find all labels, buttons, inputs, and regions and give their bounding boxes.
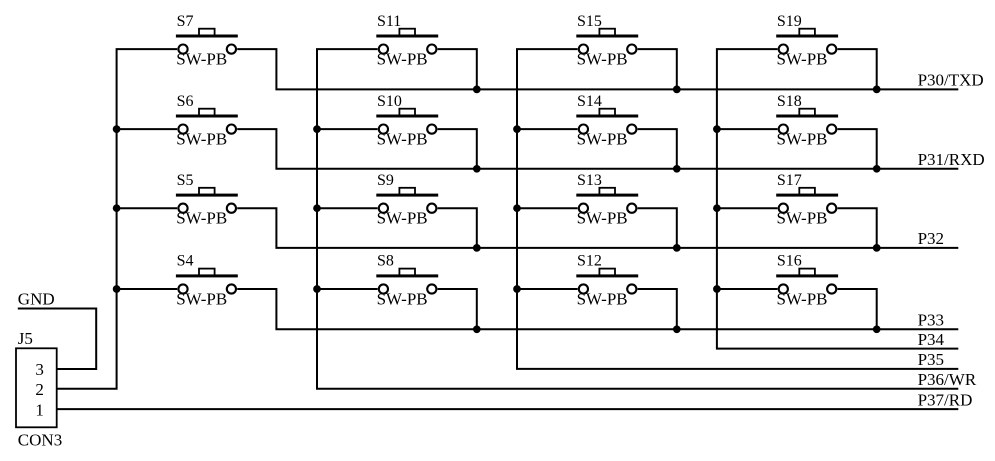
svg-text:S18: S18 <box>777 93 802 110</box>
wire: stub from column 1 bus to S6 left terminal <box>117 128 178 130</box>
svg-text:SW-PB: SW-PB <box>176 209 227 228</box>
svg-text:J5: J5 <box>18 329 33 348</box>
wire: stub from column 2 bus to S9 left terminal <box>317 207 378 209</box>
svg-text:S8: S8 <box>377 253 394 270</box>
svg-text:SW-PB: SW-PB <box>577 289 628 308</box>
svg-text:SW-PB: SW-PB <box>577 130 628 149</box>
wire: stub from column 1 bus to S4 left terminal <box>117 288 178 290</box>
svg-text:P30/TXD: P30/TXD <box>918 71 984 90</box>
svg-text:S14: S14 <box>577 93 602 110</box>
svg-text:P34: P34 <box>918 330 945 349</box>
svg-text:SW-PB: SW-PB <box>377 289 428 308</box>
svg-text:SW-PB: SW-PB <box>377 50 428 69</box>
svg-text:P31/RXD: P31/RXD <box>918 150 985 169</box>
svg-text:SW-PB: SW-PB <box>777 50 828 69</box>
junction: column 4 bus / S17 stub <box>713 204 721 212</box>
svg-text:P35: P35 <box>918 350 944 369</box>
svg-text:P33: P33 <box>918 311 944 330</box>
push-button switch S5 (SW-PB) <box>176 188 238 213</box>
junction: column 1 bus / S5 stub <box>113 204 121 212</box>
wire: stub from column 3 bus to S13 left terminal <box>517 207 578 209</box>
junction: column 1 bus / S6 stub <box>113 125 121 133</box>
wire: column 4 bus down to P34 net line <box>717 49 958 349</box>
wire: S6 right terminal drop + P31/RXD net line <box>237 129 958 169</box>
svg-text:P37/RD: P37/RD <box>918 390 973 409</box>
junction: P32 net line / S13 drop <box>673 244 681 252</box>
svg-text:P32: P32 <box>918 229 944 248</box>
junction: column 3 bus / S14 stub <box>513 125 521 133</box>
svg-text:S13: S13 <box>577 172 602 189</box>
wire: S13 right terminal drop to P32 net line <box>638 208 677 248</box>
wire: J5 pin 3 to GND net stub <box>18 309 96 370</box>
push-button switch S4 (SW-PB) <box>176 269 238 294</box>
svg-text:S5: S5 <box>177 172 194 189</box>
push-button switch S19 (SW-PB) <box>776 29 838 54</box>
svg-text:S4: S4 <box>177 253 194 270</box>
wire: S4 right terminal drop + P33 net line <box>237 289 958 329</box>
push-button switch S13 (SW-PB) <box>576 188 638 213</box>
svg-text:SW-PB: SW-PB <box>777 130 828 149</box>
svg-text:S12: S12 <box>577 253 602 270</box>
svg-text:S19: S19 <box>777 13 802 30</box>
junction: P32 net line / S9 drop <box>473 244 481 252</box>
svg-text:2: 2 <box>35 380 44 399</box>
push-button switch S10 (SW-PB) <box>376 109 438 134</box>
svg-text:1: 1 <box>35 400 44 419</box>
svg-text:S15: S15 <box>577 13 602 30</box>
svg-text:SW-PB: SW-PB <box>377 209 428 228</box>
push-button switch S18 (SW-PB) <box>776 109 838 134</box>
wire: stub from column 2 bus to S8 left terminal <box>317 288 378 290</box>
wire: column 3 bus down to P35 net line <box>517 49 958 369</box>
svg-text:S10: S10 <box>377 93 402 110</box>
svg-text:SW-PB: SW-PB <box>176 130 227 149</box>
svg-text:S16: S16 <box>777 253 802 270</box>
wire: stub from column 4 bus to S17 left terminal <box>717 207 778 209</box>
svg-text:SW-PB: SW-PB <box>176 50 227 69</box>
junction: P30/TXD net line / S19 drop <box>873 86 881 94</box>
push-button switch S6 (SW-PB) <box>176 109 238 134</box>
push-button switch S16 (SW-PB) <box>776 269 838 294</box>
wire: S9 right terminal drop to P32 net line <box>438 208 477 248</box>
junction: P31/RXD net line / S18 drop <box>873 165 881 173</box>
svg-text:SW-PB: SW-PB <box>377 130 428 149</box>
wire: S15 right terminal drop to P30/TXD net line <box>638 49 677 89</box>
wire: S11 right terminal drop to P30/TXD net line <box>438 49 477 89</box>
wire: S17 right terminal drop to P32 net line <box>838 208 877 248</box>
push-button switch S12 (SW-PB) <box>576 269 638 294</box>
wire: stub from column 1 bus to S5 left terminal <box>117 207 178 209</box>
push-button switch S9 (SW-PB) <box>376 188 438 213</box>
svg-text:P36/WR: P36/WR <box>918 370 977 389</box>
junction: column 1 bus / S4 stub <box>113 285 121 293</box>
junction: P32 net line / S17 drop <box>873 244 881 252</box>
junction: column 4 bus / S16 stub <box>713 285 721 293</box>
junction: P33 net line / S12 drop <box>673 325 681 333</box>
wire: S10 right terminal drop to P31/RXD net line <box>438 129 477 169</box>
svg-text:SW-PB: SW-PB <box>777 289 828 308</box>
push-button switch S8 (SW-PB) <box>376 269 438 294</box>
wire: S8 right terminal drop to P33 net line <box>438 289 477 329</box>
junction: column 4 bus / S18 stub <box>713 125 721 133</box>
wire: stub from column 3 bus to S12 left terminal <box>517 288 578 290</box>
junction: P31/RXD net line / S10 drop <box>473 165 481 173</box>
svg-text:SW-PB: SW-PB <box>176 289 227 308</box>
junction: column 2 bus / S10 stub <box>313 125 321 133</box>
junction: P31/RXD net line / S14 drop <box>673 165 681 173</box>
connector J5 body <box>16 348 57 427</box>
junction: column 3 bus / S12 stub <box>513 285 521 293</box>
push-button switch S7 (SW-PB) <box>176 29 238 54</box>
wire: J5 pin 1 to P37/RD net line <box>57 408 959 410</box>
junction: column 3 bus / S13 stub <box>513 204 521 212</box>
svg-text:S17: S17 <box>777 172 802 189</box>
wire: S14 right terminal drop to P31/RXD net line <box>638 129 677 169</box>
push-button switch S15 (SW-PB) <box>576 29 638 54</box>
svg-text:3: 3 <box>35 360 44 379</box>
svg-text:SW-PB: SW-PB <box>577 50 628 69</box>
wire: stub from column 2 bus to S10 left terminal <box>317 128 378 130</box>
junction: P33 net line / S8 drop <box>473 325 481 333</box>
wire: S5 right terminal drop + P32 net line <box>237 208 958 248</box>
wire: S16 right terminal drop to P33 net line <box>838 289 877 329</box>
junction: P30/TXD net line / S15 drop <box>673 86 681 94</box>
svg-text:S11: S11 <box>377 13 401 30</box>
svg-text:GND: GND <box>18 290 55 309</box>
junction: column 2 bus / S8 stub <box>313 285 321 293</box>
push-button switch S17 (SW-PB) <box>776 188 838 213</box>
wire: column 1 bus (S7/S6/S5/S4 left terminals) down to J5 pin 2 <box>57 49 178 389</box>
wire: S12 right terminal drop to P33 net line <box>638 289 677 329</box>
wire: column 2 bus down to P36/WR net line <box>317 49 958 389</box>
wire: stub from column 4 bus to S18 left terminal <box>717 128 778 130</box>
svg-text:SW-PB: SW-PB <box>777 209 828 228</box>
wire: S7 right terminal drop + P30/TXD net line <box>237 49 958 89</box>
junction: column 2 bus / S9 stub <box>313 204 321 212</box>
wire: stub from column 3 bus to S14 left terminal <box>517 128 578 130</box>
junction: P33 net line / S16 drop <box>873 325 881 333</box>
svg-text:SW-PB: SW-PB <box>577 209 628 228</box>
wire: stub from column 4 bus to S16 left terminal <box>717 288 778 290</box>
svg-text:S9: S9 <box>377 172 394 189</box>
svg-text:CON3: CON3 <box>18 431 62 450</box>
push-button switch S11 (SW-PB) <box>376 29 438 54</box>
svg-text:S6: S6 <box>177 93 194 110</box>
wire: S19 right terminal drop to P30/TXD net line <box>838 49 877 89</box>
wire: S18 right terminal drop to P31/RXD net line <box>838 129 877 169</box>
junction: P30/TXD net line / S11 drop <box>473 86 481 94</box>
svg-text:S7: S7 <box>177 13 194 30</box>
push-button switch S14 (SW-PB) <box>576 109 638 134</box>
